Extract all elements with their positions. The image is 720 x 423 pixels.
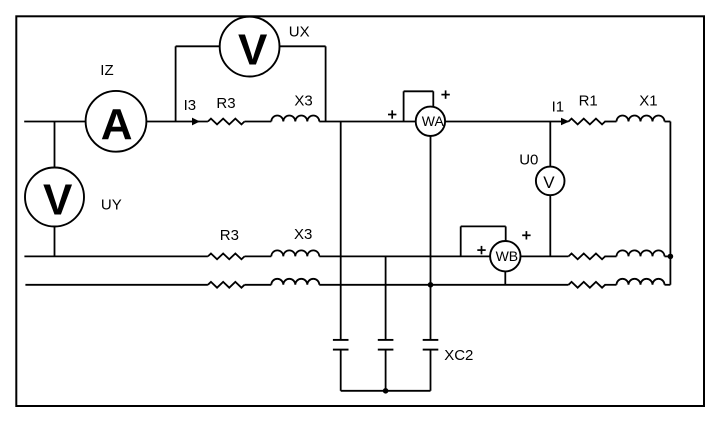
wire: WB bottom lead — [504, 271, 506, 284]
inductor X3 phase C — [271, 279, 319, 285]
wire: phase A between R1 and X1 — [605, 121, 617, 123]
wattmeter WA — [416, 107, 445, 136]
svg-text:A: A — [101, 100, 133, 149]
wire: WA voltage loop left vertical — [403, 91, 405, 121]
inductor X1 phase A — [617, 116, 665, 122]
capacitor XC2 phase C plates — [423, 340, 439, 350]
svg-text:WA: WA — [422, 113, 445, 129]
wire: WA voltage loop top horizontal — [404, 90, 434, 92]
wire: WA voltage loop right vertical — [432, 91, 434, 107]
wire: capacitor 2 to star wire — [385, 350, 387, 391]
voltmeter UX — [220, 17, 280, 77]
svg-text:U0: U0 — [519, 151, 538, 168]
wire: phase C from X3 to R — [319, 284, 568, 286]
resistor phase C right — [569, 282, 606, 288]
wire: capacitor 1 branch from phase A — [340, 122, 342, 340]
resistor phase B right — [569, 253, 606, 259]
polarity + above right of WB — [522, 231, 530, 239]
wire: UX tap right vertical — [325, 46, 327, 121]
wire: UY top lead — [54, 122, 56, 168]
voltmeter UY — [25, 168, 84, 227]
wire: phase A between R3 and X3 — [245, 121, 272, 123]
svg-text:IZ: IZ — [100, 62, 113, 79]
wire: phase A from WA to R1 — [445, 121, 568, 123]
wire: WB voltage loop top horizontal — [461, 225, 506, 227]
resistor R3 phase C — [208, 282, 245, 288]
wire: WB voltage loop right vertical — [505, 226, 507, 241]
svg-text:I3: I3 — [184, 97, 197, 114]
current arrow I1 — [561, 118, 569, 126]
svg-text:XC2: XC2 — [444, 347, 473, 364]
wire: phase C from X to right vertical — [665, 284, 671, 286]
svg-text:UY: UY — [101, 196, 122, 213]
inductor X3 phase B — [271, 250, 319, 256]
inductor X3 phase A — [271, 116, 319, 122]
wire: phase C between R3 and X3 — [245, 284, 272, 286]
wire: right vertical joining three phase branch ends — [669, 122, 671, 285]
wire: capacitor 2 branch from phase B — [385, 256, 387, 340]
junction dot phase B at right vertical — [668, 254, 674, 260]
svg-text:WB: WB — [496, 248, 519, 264]
wire: phase A from X3 to WA — [319, 121, 415, 123]
svg-text:V: V — [43, 175, 73, 224]
svg-text:R3: R3 — [216, 95, 235, 112]
wire: phase B between R and X — [605, 255, 617, 257]
polarity + left of WB — [477, 246, 485, 254]
polarity + above right of WA — [441, 90, 449, 98]
wire: capacitor star point wire — [341, 390, 431, 392]
wattmeter WB — [490, 241, 520, 271]
svg-text:X3: X3 — [294, 226, 312, 243]
wire: phase B between R3 and X3 — [245, 255, 272, 257]
wire: UX tap left vertical — [175, 46, 177, 121]
current arrow I3 — [192, 118, 200, 126]
svg-text:R1: R1 — [579, 93, 598, 110]
wire: phase A from left terminal to ammeter — [24, 121, 85, 123]
svg-text:V: V — [543, 173, 555, 192]
wire: phase B from X3 to WB — [319, 255, 490, 257]
wire: UY bottom lead — [54, 227, 56, 257]
ammeter IZ — [86, 91, 147, 152]
wire: phase B from WB to R — [520, 255, 568, 257]
wire: UX tap left horizontal — [176, 45, 221, 47]
svg-text:X3: X3 — [294, 92, 312, 109]
wire: UX tap right horizontal — [279, 45, 325, 47]
svg-text:UX: UX — [289, 23, 310, 40]
wire: phase B from X to right vertical — [665, 255, 671, 257]
wire: phase B from left terminal — [24, 255, 208, 257]
resistor R3 phase A — [208, 119, 245, 125]
wire: U0 top lead — [549, 122, 551, 167]
junction dot capacitor star point — [383, 388, 389, 394]
wire: phase A corner into right vertical — [665, 121, 671, 123]
svg-text:V: V — [238, 25, 268, 74]
wire: phase A from ammeter to R3 — [147, 121, 208, 123]
capacitor XC2 phase A plates — [333, 340, 349, 350]
svg-text:R3: R3 — [220, 227, 239, 244]
wire: phase C between R and X — [605, 284, 617, 286]
wire: WA bottom lead down to capacitor 3 — [430, 136, 432, 340]
wire: capacitor 1 to star wire — [340, 350, 342, 391]
resistor R1 phase A — [569, 119, 606, 125]
wire: U0 bottom lead — [549, 195, 551, 256]
wire: capacitor 3 to star wire — [430, 350, 432, 391]
wire: WB voltage loop left vertical — [460, 226, 462, 256]
inductor phase C right — [617, 279, 665, 285]
inductor phase B right — [617, 250, 665, 256]
polarity + left of WA — [388, 110, 396, 118]
wire: phase C from left terminal — [25, 284, 208, 286]
capacitor XC2 phase B plates — [378, 340, 394, 350]
svg-text:X1: X1 — [639, 93, 657, 110]
svg-text:I1: I1 — [552, 98, 565, 115]
resistor R3 phase B — [208, 253, 245, 259]
voltmeter U0 — [536, 167, 565, 196]
junction dot phase C at WA capacitor branch — [428, 282, 434, 288]
